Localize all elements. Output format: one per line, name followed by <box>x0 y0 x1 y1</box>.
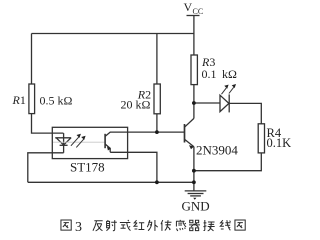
diode opto-LED triangle <box>56 138 71 145</box>
svg-text:20 kΩ: 20 kΩ <box>121 97 151 111</box>
wire R3 to collector <box>193 85 195 119</box>
caption char tu <box>61 220 71 230</box>
svg-text:GND: GND <box>182 198 210 213</box>
svg-text:0.1K: 0.1K <box>267 136 292 150</box>
ground GND stub <box>193 182 195 190</box>
wire R2 top lead <box>156 34 158 85</box>
wire LED branch <box>194 102 220 104</box>
node VCC <box>187 15 200 17</box>
svg-text:2N3904: 2N3904 <box>196 142 238 157</box>
transistor Q1 base bar <box>184 124 186 143</box>
transistor Q1 emitter arrowhead <box>189 145 194 149</box>
caption char shi <box>120 220 131 231</box>
node emitter/R4 junction <box>192 169 196 173</box>
diode LED D1 cathode bar <box>228 94 230 112</box>
resistor R2 <box>154 84 160 114</box>
wire R1 bottom to opto LED <box>32 114 64 134</box>
junction dots <box>155 101 196 184</box>
ground GND tip <box>193 198 196 200</box>
wire opto collector to Q1 base <box>105 132 184 136</box>
caption char tu2 <box>235 220 245 230</box>
svg-text:V: V <box>184 0 193 14</box>
transistor Q1 emitter <box>185 139 194 147</box>
wire LED anode stub <box>63 133 65 153</box>
diode LED D1 triangle <box>220 95 229 111</box>
svg-text:ST178: ST178 <box>70 159 105 174</box>
opto arrow 2 <box>76 136 85 148</box>
caption char chuan <box>161 220 171 231</box>
wire top rail <box>32 33 194 35</box>
resistor R4 <box>258 124 264 153</box>
svg-text:0.1 kΩ: 0.1 kΩ <box>202 67 238 81</box>
wire opto emitter to ground drop <box>110 152 157 182</box>
LED arrow 2 <box>229 84 236 94</box>
node opto emitter/rail junction <box>155 180 159 184</box>
opto phototransistor bar <box>104 134 106 148</box>
caption char she <box>106 220 116 231</box>
caption char qi <box>189 220 200 230</box>
svg-text:R1: R1 <box>12 93 26 107</box>
node base junction <box>155 130 159 134</box>
wire bottom rail <box>28 181 194 183</box>
wire Vcc down to R3 <box>193 16 195 55</box>
wire cathode to bottom rail <box>28 153 64 183</box>
caption char fan <box>93 221 103 231</box>
diode opto-LED cathode bar <box>60 144 68 146</box>
resistor R1 <box>29 84 35 114</box>
caption char gan <box>176 220 186 231</box>
caption char hong <box>134 220 144 229</box>
wire R4 bottom to emitter node <box>194 153 261 171</box>
opto emitter arrowhead <box>107 147 111 151</box>
caption char wai <box>147 220 157 231</box>
svg-text:CC: CC <box>193 7 204 16</box>
ground GND bars <box>185 190 207 192</box>
caption glyphs <box>61 220 245 231</box>
opto emitter <box>105 144 110 152</box>
transistor Q1 collector <box>185 118 194 127</box>
opto arrow 1 <box>71 134 81 146</box>
wire R1 top lead <box>31 34 33 85</box>
svg-text:0.5 kΩ: 0.5 kΩ <box>40 93 73 107</box>
svg-text:3: 3 <box>75 220 82 235</box>
wire emitter down <box>193 147 195 183</box>
node rail/GND junction <box>192 180 196 184</box>
wire R2 bottom lead <box>156 114 158 132</box>
caption char jie <box>203 220 214 231</box>
diode opto-LED anode line <box>55 137 71 139</box>
optocoupler U1 box ST178 <box>52 127 127 158</box>
resistor R3 <box>191 55 197 85</box>
LED arrow 1 <box>222 85 229 95</box>
node LED branch junction <box>192 101 196 105</box>
wire LED to R4 <box>229 103 261 123</box>
opto internal faint line <box>53 141 105 143</box>
caption char xian <box>220 220 230 230</box>
